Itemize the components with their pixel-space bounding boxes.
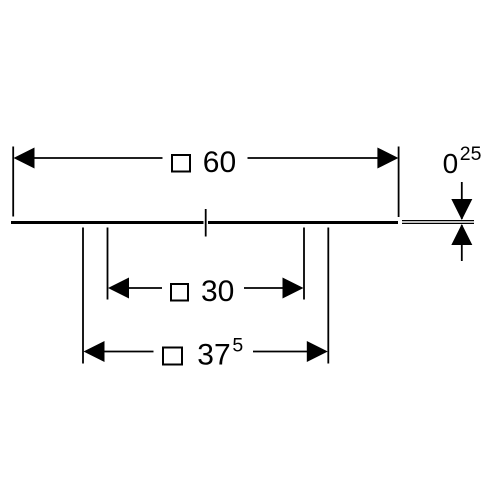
dim 60 left extension line xyxy=(12,147,14,217)
dim 60 right arrowhead xyxy=(377,148,398,169)
thickness lower thin plate line xyxy=(402,222,474,224)
square symbol for 37.5 xyxy=(163,348,182,365)
thickness dim vertical line upper xyxy=(461,182,463,219)
square symbol for 60 xyxy=(172,155,190,172)
dim 37.5 line right part xyxy=(253,351,311,353)
svg-text:25: 25 xyxy=(460,143,482,165)
thickness dim vertical line lower xyxy=(461,225,463,261)
plate centre break tick xyxy=(205,209,207,237)
svg-text:37: 37 xyxy=(197,339,230,372)
dim 30 left extension line xyxy=(107,228,109,300)
dim 37.5 right extension line xyxy=(327,228,329,364)
dim 37.5 right arrowhead xyxy=(307,341,328,362)
thickness upper arrowhead pointing down xyxy=(451,199,472,220)
dim 30 right extension line xyxy=(303,228,305,300)
dim 30 line right part xyxy=(244,287,287,289)
dim 37.5 left extension line xyxy=(82,228,84,364)
dim 37.5 line left part xyxy=(100,351,154,353)
dim 30 line left part xyxy=(124,287,162,289)
dim 60 line left part xyxy=(30,157,163,159)
svg-text:60: 60 xyxy=(203,146,236,179)
svg-text:5: 5 xyxy=(232,334,243,356)
svg-text:30: 30 xyxy=(201,275,234,308)
thickness upper thin plate line xyxy=(402,220,474,222)
plate top edge left segment xyxy=(11,221,204,224)
dim 60 line right part xyxy=(248,157,383,159)
svg-text:0: 0 xyxy=(443,148,459,179)
dim 30 left arrowhead xyxy=(108,278,129,299)
dim 60 left arrowhead xyxy=(14,148,35,169)
dim 60 right extension line xyxy=(398,147,400,218)
plate top edge right segment xyxy=(208,221,398,224)
dim 30 right arrowhead xyxy=(283,278,304,299)
dim 37.5 left arrowhead xyxy=(84,341,105,362)
square symbol for 30 xyxy=(171,284,188,301)
thickness lower arrowhead pointing up xyxy=(451,224,472,245)
